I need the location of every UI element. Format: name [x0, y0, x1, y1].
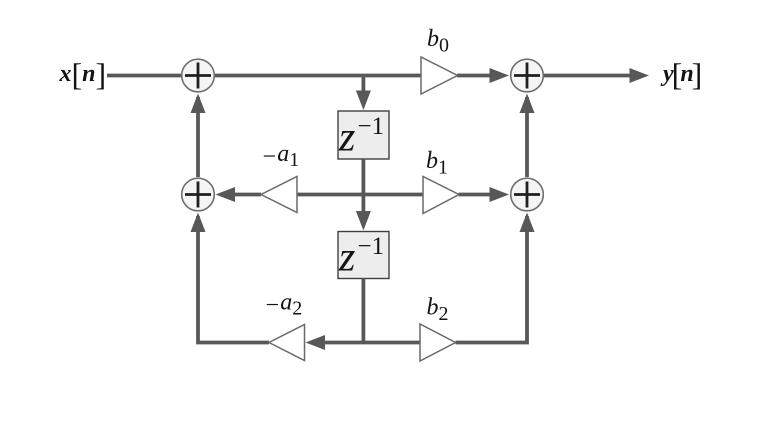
- wire: gain b2 output right then up to summer S4 with arrowhead: [456, 213, 535, 343]
- svg-text:b1: b1: [426, 148, 448, 179]
- wire: top rail summer S1 to gain b0 (through node N1): [214, 74, 421, 78]
- svg-text:z: z: [338, 235, 355, 281]
- svg-text:y[n]: y[n]: [660, 56, 701, 92]
- summer S3 (feedback adder): [182, 178, 215, 211]
- svg-text:−1: −1: [358, 233, 385, 260]
- wire: gain a2 output left then up to summer S3 with arrowhead: [191, 213, 270, 343]
- delay element Z2 (z^-1): [338, 232, 389, 281]
- gain b2 (amplifier triangle, right-pointing): [420, 324, 456, 361]
- summer S2 (adder at output): [511, 59, 544, 92]
- wire: gain b1 output to summer S4 with arrowhead: [459, 187, 510, 202]
- wire: delay Z1 to node N2 on middle rail: [361, 159, 365, 196]
- wire: summer S2 to output y[n] with arrowhead: [544, 68, 649, 83]
- gain b0 (amplifier triangle, right-pointing): [421, 57, 458, 94]
- wire: bottom rail node N3 to gain b2: [363, 341, 420, 345]
- svg-text:b2: b2: [427, 295, 449, 326]
- delay element Z1 (z^-1): [338, 111, 389, 161]
- summer S4 (feedforward adder): [511, 178, 544, 211]
- svg-text:−a1: −a1: [261, 141, 299, 171]
- gain b1 (amplifier triangle, right-pointing): [423, 177, 459, 214]
- gain a2 (feedback amplifier triangle, left-pointing, value -a2): [269, 325, 305, 361]
- svg-text:−a2: −a2: [264, 290, 302, 320]
- wire: delay Z2 down to node N3 on bottom rail: [361, 279, 365, 345]
- wire: middle rail node N2 to gain a1 base: [297, 193, 363, 197]
- wire: gain a1 output to summer S3 with arrowhead: [216, 187, 262, 202]
- wire: node N2 down into delay Z2 with arrowhead: [356, 194, 371, 231]
- svg-text:z: z: [338, 115, 355, 161]
- wire: bottom rail node N3 to gain a2 with arrowhead at gain base: [306, 335, 364, 350]
- svg-text:−1: −1: [358, 113, 385, 140]
- wire: middle rail node N2 to gain b1: [363, 193, 423, 197]
- wire: gain b0 output to summer S2 with arrowhead: [457, 68, 509, 83]
- svg-text:b0: b0: [427, 26, 449, 57]
- wire: summer S4 up to summer S2 with arrowhead: [520, 94, 535, 178]
- svg-text:x[n]: x[n]: [59, 56, 107, 92]
- wire: node N1 down into delay Z1 with arrowhead: [356, 76, 371, 111]
- wire: summer S3 up to summer S1 with arrowhead: [191, 94, 206, 178]
- gain a1 (feedback amplifier triangle, left-pointing, value -a1): [261, 177, 297, 213]
- summer S1 (adder at input): [182, 59, 215, 92]
- wire: input x[n] to summer S1: [107, 74, 182, 78]
